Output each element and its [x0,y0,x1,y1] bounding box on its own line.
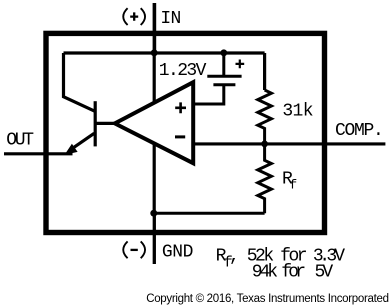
transistor Q1 base bar [94,101,97,146]
wire internal vertical IN-to-bottom (passes behind op-amp) [153,53,156,213]
transistor Q1 emitter with arrow [70,133,94,150]
svg-text:COMP.: COMP. [335,121,383,141]
op-amp minus input symbol [175,135,185,138]
node COMP junction [261,141,268,148]
reference V1 top plate [207,75,241,78]
svg-text:1.23V: 1.23V [159,61,207,81]
svg-text:IN: IN [160,9,180,29]
wire IN pin vertical [153,3,157,53]
wire GND pin vertical [153,213,156,264]
svg-text:94k: 94k [252,263,278,283]
IC boundary box [46,33,325,232]
op-amp U1 triangle [115,82,193,163]
resistor Rf zigzag [258,144,272,214]
svg-text:for: for [281,263,305,283]
node IN junction [151,49,158,56]
pin label (-) [123,241,145,258]
op-amp plus input symbol [175,102,186,113]
pin label (+) [123,8,145,25]
transistor Q1 base lead [95,122,114,125]
svg-text:GND: GND [162,243,193,263]
wire bottom rail [154,212,265,215]
reference V1 bottom plate [213,83,235,86]
svg-text:,: , [229,247,237,267]
wire OUT pin [4,152,73,155]
wire collector riser [64,53,96,111]
svg-text:f: f [289,178,296,193]
svg-text:31k: 31k [282,102,312,122]
wire op-amp plus input [193,86,224,104]
node reference junction [220,49,227,56]
wire COMP line [193,142,385,145]
svg-text:OUT: OUT [6,131,34,151]
reference V1 plus mark [236,60,245,69]
wire top rail [64,51,265,54]
svg-text:Copyright © 2016, Texas Instru: Copyright © 2016, Texas Instruments Inco… [146,293,389,305]
reference V1 1.23V battery riser [222,53,225,75]
resistor R1 31k zigzag [258,90,272,144]
node GND junction [150,210,157,217]
wire 31k top lead [263,53,266,90]
